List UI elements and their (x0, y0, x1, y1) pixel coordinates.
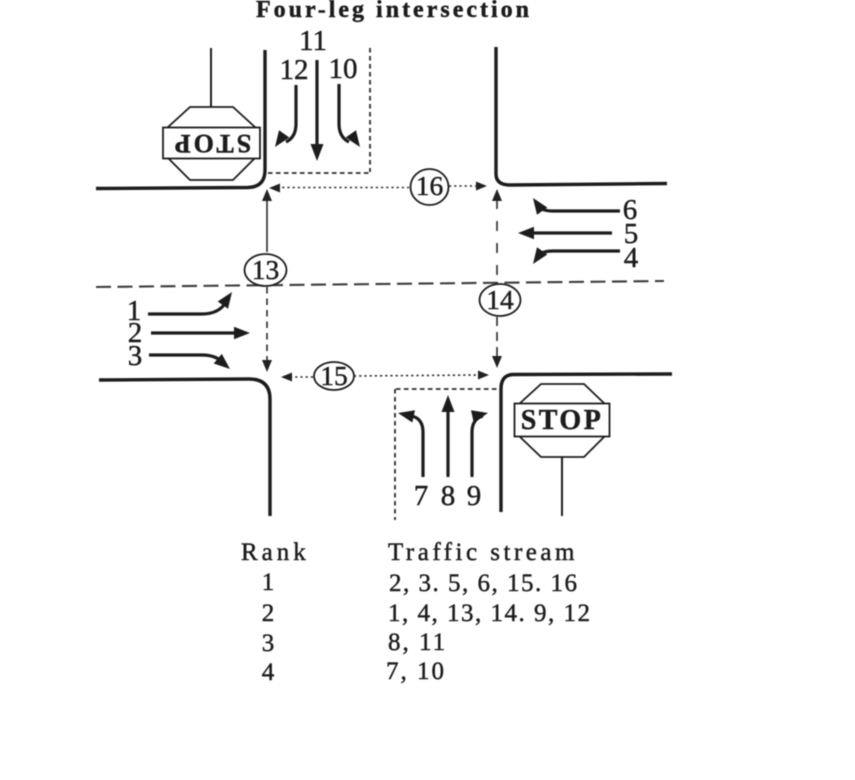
svg-text:STOP: STOP (521, 405, 604, 436)
road edge NE corner (496, 47, 667, 185)
arrow stream 12 line (286, 85, 296, 142)
road edge SW corner (99, 379, 270, 516)
svg-text:STOP: STOP (172, 129, 251, 158)
arrow stream 6 line (537, 205, 620, 211)
arrowhead stream 3 (214, 354, 230, 369)
arrow stream 1 line (148, 302, 226, 314)
svg-text:Traffic stream: Traffic stream (388, 539, 578, 566)
arrowhead stream 15 right (478, 371, 489, 380)
arrowhead stream 14 up (492, 189, 502, 201)
arrowhead stream 15 left (281, 373, 292, 382)
arrow stream 7 line (412, 416, 423, 477)
node circle 14 (480, 284, 521, 316)
stream 14 line lower dashed (496, 317, 498, 358)
arrow stream 10 line (339, 84, 349, 142)
svg-text:7: 7 (414, 480, 429, 512)
stream 14 line upper dashed (496, 199, 498, 283)
road edge NW corner (96, 50, 265, 189)
node circle 16 (411, 169, 449, 205)
arrowhead stream 16 right (476, 182, 487, 191)
arrowhead stream 8 (442, 395, 455, 412)
arrow stream 5 line (532, 231, 612, 234)
node circle 13 (245, 254, 287, 286)
arrow stream 8 line (446, 408, 449, 477)
stream 13 line upper (266, 198, 268, 252)
stop sign south (facing viewer) (515, 384, 610, 516)
arrow stream 9 line (472, 416, 483, 477)
stream 15 dotted line left (290, 376, 314, 378)
node circle 15 (314, 362, 354, 390)
svg-text:6: 6 (623, 194, 638, 226)
stop sign west (facing away, rotated) (163, 48, 260, 180)
stream 16 dotted line left (277, 187, 409, 189)
stream 13 line lower dashed (266, 287, 268, 362)
arrowhead stream 10 (346, 130, 360, 147)
arrowhead stream 1 (218, 292, 232, 309)
svg-text:13: 13 (252, 254, 280, 285)
stop sign south band (515, 404, 610, 437)
stop sign west octagon (167, 107, 256, 180)
svg-text:16: 16 (416, 170, 444, 201)
arrowhead stream 11 (311, 144, 324, 161)
svg-text:11: 11 (299, 25, 327, 57)
svg-text:7, 10: 7, 10 (386, 658, 446, 685)
svg-text:8, 11: 8, 11 (388, 629, 447, 656)
arrow stream 2 line (151, 331, 236, 334)
arrowhead stream 2 (234, 327, 250, 340)
stop sign west band (163, 128, 260, 159)
svg-text:2, 3. 5, 6, 15. 16: 2, 3. 5, 6, 15. 16 (389, 570, 579, 597)
svg-text:Four-leg intersection: Four-leg intersection (256, 0, 532, 23)
stop sign west pole (210, 48, 212, 107)
arrowhead stream 9 (471, 410, 488, 422)
svg-text:15: 15 (320, 360, 348, 391)
arrow stream 11 line (315, 60, 318, 147)
svg-text:3: 3 (262, 630, 275, 657)
arrowhead stream 14 down (492, 356, 502, 368)
svg-text:Rank: Rank (241, 539, 310, 566)
svg-text:4: 4 (262, 659, 275, 686)
svg-text:9: 9 (467, 480, 482, 512)
arrowhead stream 13 up (262, 189, 272, 201)
svg-text:8: 8 (441, 480, 456, 512)
arrowhead stream 5 (518, 227, 534, 240)
stop sign south octagon (518, 384, 606, 457)
arrowhead stream 7 (398, 410, 415, 422)
svg-text:3: 3 (128, 340, 143, 372)
lane box south approach (395, 389, 499, 520)
svg-text:14: 14 (486, 284, 514, 315)
arrowhead stream 13 down (262, 360, 272, 372)
centerline east-west (96, 281, 664, 287)
arrow stream 3 line (149, 355, 224, 364)
arrowhead stream 12 (275, 130, 289, 147)
arrowhead stream 4 (533, 247, 547, 264)
lane box north approach (268, 48, 371, 173)
svg-text:1: 1 (262, 569, 275, 596)
stop sign south pole (561, 457, 563, 516)
svg-text:12: 12 (280, 54, 309, 86)
arrowhead stream 6 (533, 198, 547, 215)
stream 16 dotted line right (449, 185, 477, 187)
svg-text:10: 10 (329, 53, 358, 85)
road edge SE corner (501, 374, 672, 512)
stream 15 dotted line right (354, 375, 479, 376)
svg-text:1, 4, 13, 14. 9, 12: 1, 4, 13, 14. 9, 12 (388, 600, 592, 627)
arrowhead stream 16 left (269, 184, 280, 193)
arrow stream 4 line (537, 251, 620, 257)
svg-text:2: 2 (262, 600, 275, 627)
